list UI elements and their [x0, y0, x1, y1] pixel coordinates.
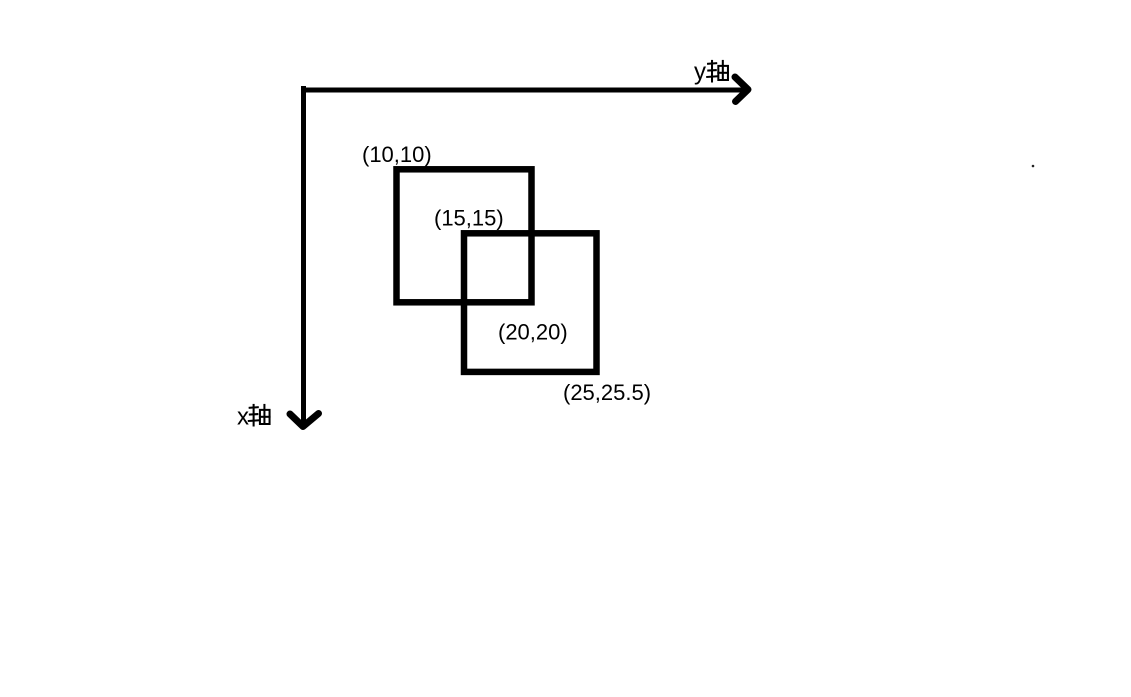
- svg-text:(10,10): (10,10): [362, 142, 432, 167]
- x-axis line (vertical, pointing down): [301, 86, 306, 424]
- y-axis line (horizontal, pointing right): [301, 88, 744, 93]
- svg-text:x: x: [237, 404, 249, 431]
- svg-text:(20,20): (20,20): [498, 320, 568, 345]
- rectangle 1: square from (10,10) to (15,15): [397, 169, 532, 302]
- x-axis arrowhead: [290, 414, 319, 427]
- svg-text:(25,25.5): (25,25.5): [563, 380, 651, 405]
- stray dot artifact top right: [1032, 165, 1035, 168]
- glyph 轴 of x-axis title: [249, 405, 270, 426]
- glyph 轴 of y-axis title: [707, 61, 728, 82]
- svg-text:(15,15): (15,15): [434, 206, 504, 231]
- svg-text:y: y: [694, 59, 706, 86]
- y-axis arrowhead: [735, 77, 748, 102]
- rectangle 2: square from (15,15)/(20,20) to (25,25.5): [464, 233, 597, 372]
